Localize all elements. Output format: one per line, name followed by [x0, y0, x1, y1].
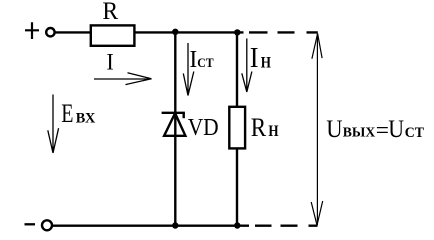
resistor R (box): [91, 25, 135, 45]
svg-text:СТ: СТ: [405, 125, 425, 141]
output voltage measurement line (double-headed arrow): [311, 34, 323, 226]
wire: node A to node B: [176, 31, 244, 33]
plus sign (positive input terminal marking): [25, 22, 39, 39]
current arrow Iст (through zener): [183, 43, 194, 96]
zener diode VD: triangle (anode): [164, 113, 185, 136]
current arrow Iн (through load): [242, 39, 252, 93]
svg-text:Н: Н: [268, 123, 278, 140]
minus sign (negative input terminal marking): [25, 223, 36, 225]
svg-text:U: U: [388, 116, 404, 143]
label Uвых=Uст: [326, 116, 424, 144]
svg-text:I: I: [189, 46, 197, 73]
wire: resistor R to node A: [135, 31, 176, 33]
wire: node B down to load resistor Rн: [236, 32, 238, 109]
svg-text:U: U: [326, 116, 342, 143]
svg-text:I: I: [106, 50, 113, 75]
svg-text:R: R: [251, 113, 267, 142]
wire (dashed): node B to measurement corner, top: [249, 31, 318, 33]
source voltage arrow Eвх (input EMF, pointing down): [48, 95, 59, 154]
label Iн: [250, 43, 271, 74]
wire (dashed): node D to measurement corner, bottom: [255, 224, 318, 226]
input terminal + (open circle): [46, 28, 54, 36]
wire: - terminal along bottom through node C to node D: [52, 224, 249, 226]
label Iст: [189, 46, 213, 73]
node C (bottom junction, diode branch): [172, 222, 178, 228]
svg-text:I: I: [250, 43, 259, 74]
node B (top junction, load branch): [234, 29, 240, 35]
node D (bottom junction, load branch): [234, 222, 240, 228]
current arrow I (through R): [94, 73, 152, 85]
node A (top junction, diode branch): [172, 29, 178, 35]
svg-text:ВХ: ВХ: [76, 111, 96, 127]
svg-text:E: E: [61, 99, 73, 128]
label Rн: [251, 113, 279, 142]
zener diode VD: cathode tick (zener wing): [182, 113, 184, 118]
wire: node A down through diode VD to node C: [174, 32, 176, 227]
zener diode VD: cathode bar: [162, 112, 185, 114]
label Eвх: [61, 99, 95, 128]
svg-text:R: R: [102, 0, 118, 25]
wire: load resistor Rн down to node D: [236, 148, 238, 227]
svg-text:VD: VD: [188, 114, 219, 141]
svg-text:ВЫХ: ВЫХ: [343, 124, 376, 139]
svg-text:Н: Н: [261, 54, 271, 71]
load resistor Rн (box): [229, 107, 245, 149]
svg-text:=: =: [376, 118, 389, 144]
wire: + terminal to resistor R: [55, 31, 90, 33]
input terminal - (open circle): [42, 220, 52, 230]
svg-text:СТ: СТ: [197, 55, 214, 70]
